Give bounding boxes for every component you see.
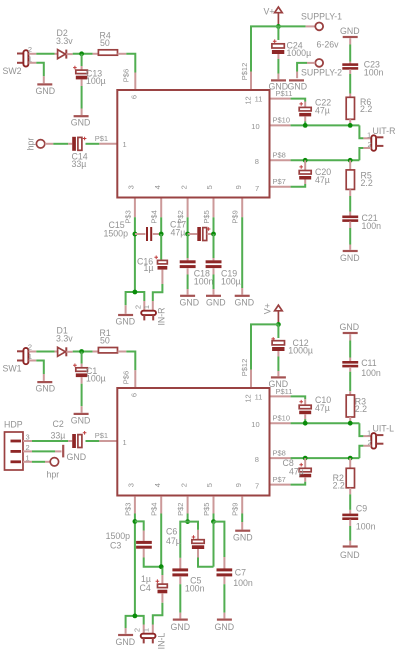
pin 7 right lower	[255, 475, 291, 491]
svg-text:100n: 100n	[194, 276, 214, 286]
svg-text:2.2: 2.2	[355, 404, 367, 414]
wire C20 to pin P$7	[291, 184, 306, 187]
svg-text:GND: GND	[36, 384, 56, 394]
wire HDP pin2 to GND	[23, 450, 62, 452]
node junction P$3/IN-L	[133, 614, 138, 619]
svg-text:P$6: P$6	[122, 371, 131, 384]
pin P$12 top lower	[240, 359, 252, 403]
svg-text:GND: GND	[233, 532, 253, 542]
svg-text:P$9: P$9	[231, 503, 240, 516]
wire C12 to GND	[277, 351, 279, 376]
pin P$9 bottom	[231, 185, 243, 223]
ground GND (above C23)	[340, 26, 360, 37]
wire P$5 down to C6 join	[213, 522, 215, 567]
wire net P$8 to UIT-R pin2	[291, 148, 372, 160]
svg-text:100n: 100n	[362, 221, 382, 231]
svg-text:GND: GND	[116, 317, 136, 327]
svg-text:12: 12	[243, 96, 252, 104]
svg-text:P$6: P$6	[122, 69, 131, 82]
svg-text:47µ: 47µ	[289, 466, 304, 476]
wire R1 to pin P$6	[118, 352, 136, 371]
svg-text:1: 1	[123, 438, 127, 447]
svg-text:2: 2	[133, 628, 142, 632]
svg-text:47µ: 47µ	[171, 227, 186, 237]
node junction D1/R1/C1	[79, 349, 84, 354]
pin P$5 bottom	[202, 185, 214, 223]
svg-text:100n: 100n	[233, 578, 253, 588]
svg-text:7: 7	[255, 482, 259, 491]
svg-text:1: 1	[367, 428, 371, 437]
node junction R3/P$10	[348, 421, 353, 426]
svg-text:HDP: HDP	[4, 420, 23, 430]
capacitor C22 47u	[299, 97, 331, 125]
svg-text:1: 1	[367, 131, 371, 140]
wire V+ net to SUPPLY-1	[278, 25, 315, 27]
wire SW1 pin2 to D1	[29, 351, 58, 353]
resistor R6 2.2	[346, 97, 372, 126]
svg-text:8: 8	[255, 157, 259, 166]
svg-text:100n: 100n	[185, 584, 205, 594]
svg-text:50: 50	[100, 336, 110, 346]
supply V+ lower	[263, 303, 283, 322]
svg-text:3: 3	[127, 185, 136, 189]
node junction P$5/C17	[211, 232, 216, 237]
svg-text:1000µ: 1000µ	[287, 48, 312, 58]
svg-text:SW1: SW1	[3, 364, 22, 374]
svg-text:C9: C9	[356, 504, 367, 514]
wire SW2 pin2 to D2	[29, 53, 58, 55]
wire net P$5	[213, 217, 215, 234]
wire net P$11	[291, 99, 306, 102]
wire SUPPLY-2 to GND	[297, 63, 315, 78]
svg-text:P$2: P$2	[176, 503, 185, 516]
svg-text:2: 2	[133, 305, 142, 309]
pin P$4 bottom	[150, 185, 162, 223]
wire HDP pin1 to hpr	[23, 461, 50, 463]
svg-text:GND: GND	[340, 550, 360, 560]
svg-text:6: 6	[130, 393, 139, 397]
node junction D2/R4/C13	[79, 51, 84, 56]
node junction V+	[276, 24, 281, 29]
svg-text:C4: C4	[140, 583, 151, 593]
svg-text:3: 3	[127, 483, 136, 487]
wire C4 to IN-L pin1	[153, 593, 163, 633]
pin P$2 bottom lower	[176, 483, 188, 516]
ground GND (under C12)	[269, 377, 289, 389]
ground GND (under SW1)	[36, 382, 56, 394]
ground GND (under C5)	[171, 620, 191, 632]
connector UIT-L	[367, 424, 394, 449]
wire net P$10 to UIT-R pin1	[291, 125, 372, 138]
node junction C20/P$8	[303, 158, 308, 163]
ground GND (under P$9 lower)	[233, 531, 253, 543]
svg-text:100µ: 100µ	[86, 374, 106, 384]
svg-text:1000µ: 1000µ	[288, 346, 313, 356]
node junction C10/P$10	[303, 421, 308, 426]
pin SUPPLY-2	[301, 59, 342, 77]
ground GND (under C7)	[215, 620, 235, 632]
svg-text:GND: GND	[235, 297, 255, 307]
pin P$9 bottom lower	[231, 483, 243, 516]
svg-text:C11: C11	[361, 358, 377, 368]
svg-text:UIT-R: UIT-R	[373, 126, 396, 136]
connector UIT-R	[367, 126, 395, 151]
svg-text:10: 10	[251, 420, 259, 429]
svg-text:2.2: 2.2	[360, 104, 372, 114]
wire V+ net to P$12 lower	[251, 324, 278, 369]
supply V+ upper	[264, 7, 283, 25]
svg-text:GND: GND	[206, 297, 226, 307]
capacitor C23 100n	[342, 38, 383, 77]
node junction P$3/IN-R	[133, 290, 138, 295]
resistor R5 2.2	[346, 160, 373, 189]
wire C16 to IN-R pin1	[153, 270, 163, 310]
svg-text:2: 2	[179, 185, 188, 189]
svg-text:P$12: P$12	[240, 63, 249, 81]
pin P$5 bottom lower	[202, 483, 214, 516]
capacitor C21 100n	[342, 213, 381, 231]
wire C11 to R3	[349, 367, 351, 395]
wire C6 to P$5 net	[198, 549, 214, 567]
svg-text:7: 7	[255, 184, 259, 193]
svg-text:6-26v: 6-26v	[317, 39, 340, 49]
capacitor C1 100u	[73, 352, 106, 384]
wire P$5 to C7 branch	[214, 522, 225, 557]
switch SW2	[3, 45, 33, 76]
svg-text:GND: GND	[71, 415, 91, 425]
svg-text:2.2: 2.2	[361, 178, 373, 188]
svg-text:UIT-L: UIT-L	[373, 424, 395, 434]
svg-text:11: 11	[255, 95, 263, 104]
node junction R2/P$8	[348, 456, 353, 461]
svg-text:100µ: 100µ	[221, 276, 241, 286]
svg-text:6: 6	[130, 95, 139, 99]
pin 8 right lower	[255, 448, 291, 464]
svg-text:33µ: 33µ	[72, 159, 87, 169]
node junction P$3/C15	[133, 232, 138, 237]
svg-text:P$1: P$1	[95, 134, 108, 143]
svg-text:4: 4	[153, 185, 162, 189]
node junction P$4/C3/C4	[159, 564, 164, 569]
svg-text:GND: GND	[180, 297, 200, 307]
pin P$4 bottom lower	[150, 483, 162, 516]
wire hpr to C14	[45, 143, 72, 145]
capacitor C9 100n	[342, 504, 375, 532]
pin P$6 top lower	[122, 370, 139, 397]
capacitor C11 100n	[342, 334, 381, 378]
node junction P$4/C15	[159, 232, 164, 237]
svg-text:GND: GND	[340, 253, 360, 263]
svg-text:2: 2	[28, 45, 32, 54]
svg-text:IN-R: IN-R	[157, 307, 167, 325]
svg-text:P$10: P$10	[273, 116, 291, 125]
wire D1 to junction to R1	[73, 351, 99, 353]
wire V+ net to P$12	[251, 26, 278, 71]
capacitor C4 1u	[140, 568, 168, 594]
svg-text:9: 9	[234, 185, 243, 189]
node junction C8/P$8	[303, 456, 308, 461]
capacitor C14 33u	[72, 137, 88, 169]
ground GND (under SW2)	[36, 84, 56, 96]
svg-text:P$4: P$4	[150, 210, 159, 223]
capacitor C5 100n	[172, 558, 204, 594]
svg-text:1: 1	[142, 305, 151, 309]
node junction R6/P$10	[348, 123, 353, 128]
wire net P$11 lower	[291, 396, 306, 399]
capacitor C17 47u	[170, 220, 214, 241]
svg-text:P$7: P$7	[273, 177, 286, 186]
pin P$3 bottom	[123, 185, 135, 223]
wire C5 to GND	[179, 576, 181, 618]
svg-text:P$3: P$3	[123, 210, 132, 223]
wire C14 to pin P$1	[86, 134, 117, 144]
svg-text:GND: GND	[67, 452, 87, 462]
node junction R5/P$8	[348, 158, 353, 163]
ground GND (under C21)	[340, 251, 360, 263]
svg-text:V+: V+	[263, 303, 273, 314]
svg-text:IN-L: IN-L	[157, 633, 167, 650]
capacitor C19 100u	[206, 234, 241, 286]
wire C9 to GND	[349, 520, 351, 546]
svg-text:GND: GND	[116, 637, 136, 647]
svg-text:50: 50	[100, 38, 110, 48]
wire C21 to GND	[349, 221, 351, 249]
svg-text:2: 2	[179, 483, 188, 487]
svg-text:P$10: P$10	[273, 413, 291, 422]
svg-text:1µ: 1µ	[144, 263, 154, 273]
pin 7 right	[255, 177, 291, 193]
pin P$2 bottom	[176, 185, 188, 223]
wire net P$2	[187, 217, 189, 234]
resistor R3 2.2	[346, 395, 367, 423]
wire C24 to GND	[277, 54, 279, 79]
svg-text:P$9: P$9	[231, 210, 240, 223]
node junction P$3/C3	[133, 519, 138, 524]
pin 11 right lower	[255, 387, 293, 402]
switch SW1	[3, 343, 33, 374]
capacitor C8 47u	[283, 458, 312, 482]
svg-text:4: 4	[153, 483, 162, 487]
ground GND (under C24)	[269, 80, 289, 91]
svg-text:9: 9	[234, 483, 243, 487]
svg-text:SW2: SW2	[3, 66, 22, 76]
ground GND (under C19)	[206, 296, 226, 308]
svg-text:GND: GND	[171, 622, 191, 632]
wire SW1 pin1 to GND	[29, 361, 44, 381]
svg-text:3.3v: 3.3v	[56, 36, 73, 46]
svg-text:GND: GND	[269, 82, 289, 92]
ground GND (under C13)	[71, 116, 91, 127]
resistor R2 2.2	[333, 458, 355, 490]
svg-text:P$8: P$8	[273, 151, 286, 160]
svg-text:GND: GND	[340, 322, 360, 332]
svg-text:P$8: P$8	[273, 448, 286, 457]
wire C18 to GND	[187, 268, 189, 294]
svg-text:P$4: P$4	[150, 503, 159, 516]
capacitor C18 100n	[180, 234, 214, 286]
capacitor C15 1500p	[104, 220, 162, 241]
pin 8 right	[255, 151, 291, 167]
pin P$3 bottom lower	[123, 483, 135, 516]
ground GND (under C1)	[71, 414, 91, 425]
wire C8 to pin P$7 lower	[291, 482, 306, 485]
svg-text:P$5: P$5	[202, 503, 211, 516]
wire net P$10 to UIT-L pin1	[291, 423, 372, 436]
op-amp U2 (IC box lower J1)	[117, 388, 269, 496]
capacitor C3 1500p	[106, 521, 152, 550]
resistor R4 50	[98, 31, 117, 56]
wire D2 to junction to R4	[73, 53, 99, 55]
svg-text:C7: C7	[235, 567, 246, 577]
svg-text:100µ: 100µ	[86, 76, 106, 86]
svg-text:47µ: 47µ	[315, 105, 330, 115]
capacitor C2 33u	[51, 419, 87, 448]
node junction P$2/C17	[185, 232, 190, 237]
svg-text:2: 2	[28, 343, 32, 352]
svg-text:47µ: 47µ	[166, 536, 181, 546]
svg-text:hpr: hpr	[47, 469, 60, 479]
svg-text:47µ: 47µ	[315, 403, 330, 413]
wire P$4 to C16	[160, 234, 162, 260]
ground GND (under P$9)	[235, 296, 255, 308]
svg-text:GND: GND	[71, 118, 91, 128]
pin 11 right	[255, 89, 293, 104]
svg-text:C2: C2	[53, 419, 64, 429]
node junction V+ lower	[276, 322, 281, 327]
node junction P$5 lower	[211, 519, 216, 524]
capacitor C20 47u	[299, 160, 331, 185]
svg-text:P$1: P$1	[95, 431, 108, 440]
pin P$6 top	[122, 69, 139, 99]
ground GND (HDP pin2, rotated)	[63, 445, 86, 462]
wire R2 to C9	[349, 488, 351, 514]
pin SUPPLY-1	[301, 12, 342, 31]
svg-text:12: 12	[243, 394, 252, 402]
svg-text:V+: V+	[264, 7, 275, 17]
wire C7 to GND	[223, 576, 225, 618]
svg-text:C3: C3	[110, 540, 121, 550]
svg-text:11: 11	[255, 393, 263, 402]
capacitor C16 1u	[137, 256, 167, 274]
wire C3 to P$4 node	[144, 549, 162, 567]
connector IN-L	[133, 628, 167, 649]
capacitor C10 47u	[299, 395, 331, 423]
pin 10 right lower	[251, 413, 290, 429]
ground GND (above C11)	[340, 322, 360, 333]
svg-text:P$3: P$3	[123, 503, 132, 516]
svg-text:3.3v: 3.3v	[56, 334, 73, 344]
svg-text:SUPPLY-2: SUPPLY-2	[301, 67, 342, 77]
pin P$12 top	[240, 63, 252, 105]
capacitor C24 1000u	[272, 26, 311, 57]
wire net P$5 lower	[213, 514, 215, 522]
wire net P$4	[160, 217, 162, 234]
svg-text:5: 5	[205, 185, 214, 189]
svg-text:P$7: P$7	[273, 475, 286, 484]
wire P$2 to C6 branch	[188, 522, 198, 530]
svg-text:5: 5	[205, 483, 214, 487]
svg-text:33µ: 33µ	[51, 431, 66, 441]
svg-text:47µ: 47µ	[315, 175, 330, 185]
wire C2 to pin P$1	[86, 431, 117, 441]
svg-text:GND: GND	[269, 379, 289, 389]
resistor R1 50	[98, 328, 117, 353]
wire R4 to pin P$6	[118, 54, 136, 73]
wire C23 to R6	[349, 69, 351, 97]
diode D1 3.3v	[56, 326, 73, 357]
wire P$3 node to IN-L pin2 and GND	[126, 616, 144, 634]
node junction P$2 lower	[185, 519, 190, 524]
svg-text:hpr: hpr	[26, 138, 36, 151]
ground GND (SUPPLY-2)	[288, 80, 308, 91]
svg-text:GND: GND	[340, 26, 360, 36]
pin hpr (lower)	[47, 458, 60, 480]
svg-text:GND: GND	[215, 622, 235, 632]
svg-text:SUPPLY-1: SUPPLY-1	[301, 12, 342, 22]
wire R5 to C21	[349, 189, 351, 215]
connector IN-R	[133, 305, 166, 326]
svg-text:GND: GND	[288, 82, 308, 92]
connector HDP	[4, 420, 30, 471]
wire P$2 to C5 branch	[180, 522, 187, 558]
wire C1 to GND	[81, 377, 83, 413]
capacitor C12 1000u	[271, 324, 313, 355]
diode D2 3.3v	[56, 28, 73, 59]
svg-text:8: 8	[255, 455, 259, 464]
wire HDP pin3 to C2	[23, 440, 72, 442]
svg-text:GND: GND	[36, 86, 56, 96]
svg-text:100n: 100n	[364, 68, 384, 78]
ground GND (under C18)	[180, 296, 200, 308]
svg-text:2.2: 2.2	[333, 480, 345, 490]
wire net P$9 to GND	[241, 217, 243, 294]
wire net P$9 lower to GND	[241, 514, 243, 530]
wire SW2 pin1 to GND	[29, 63, 44, 83]
ground GND (under C9)	[340, 547, 360, 561]
svg-text:1500p: 1500p	[104, 228, 129, 238]
ground GND (next to IN-R)	[116, 315, 136, 327]
svg-text:1: 1	[142, 628, 151, 632]
wire net P$3 lower	[134, 514, 136, 616]
capacitor C7 100n	[217, 557, 253, 588]
wire net P$3	[134, 217, 136, 292]
svg-text:100n: 100n	[356, 522, 376, 532]
wire net P$2 lower	[187, 514, 189, 522]
ground GND (next to IN-L)	[116, 635, 136, 647]
node junction C22/P$10	[303, 123, 308, 128]
wire P$3 node to IN-R pin2 and GND	[126, 292, 145, 314]
capacitor C13 100u	[73, 54, 106, 86]
svg-text:1: 1	[123, 140, 127, 149]
op-amp U1 (IC box upper J1)	[117, 90, 269, 198]
wire net P$8 to UIT-L pin2	[291, 446, 372, 458]
wire C19 to GND	[213, 268, 215, 294]
svg-text:10: 10	[251, 122, 259, 131]
pin 10 right	[251, 116, 290, 132]
wire net P$4 lower	[160, 514, 162, 567]
svg-text:100n: 100n	[361, 368, 381, 378]
svg-text:P$12: P$12	[240, 359, 249, 377]
wire C13 to GND	[81, 79, 83, 115]
pin hpr (input)	[26, 138, 45, 151]
svg-text:P$5: P$5	[202, 210, 211, 223]
capacitor C6 47u	[166, 527, 204, 550]
